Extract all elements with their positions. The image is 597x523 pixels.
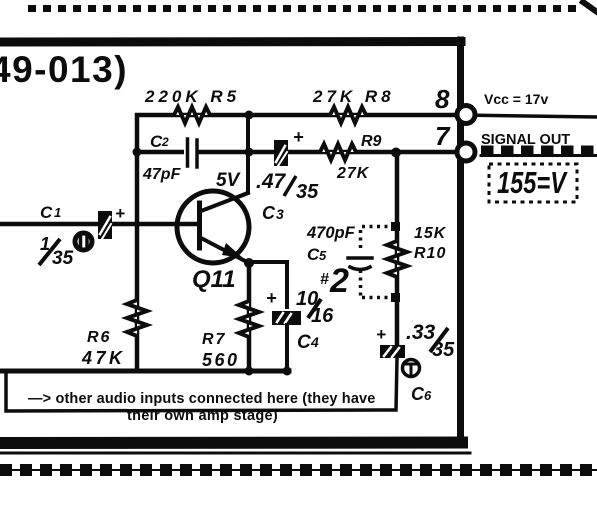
- node: rail junction C4: [283, 367, 292, 376]
- svg-text:5V: 5V: [216, 170, 241, 191]
- polarity circle symbol near C1: [75, 233, 92, 250]
- svg-text:27K: 27K: [336, 165, 370, 182]
- svg-text:R10: R10: [414, 245, 446, 262]
- wire: Vcc top row (collector supply) y=115: [137, 115, 454, 152]
- schematic box right edge: [457, 40, 464, 445]
- wire: base node vertical x=137: [135, 152, 140, 371]
- svg-text:#: #: [320, 271, 329, 288]
- node: emitter junction: [244, 258, 254, 268]
- top dashed border line: [28, 5, 583, 12]
- svg-text:220K R5: 220K R5: [144, 87, 240, 106]
- svg-text:.47: .47: [256, 170, 287, 193]
- resistor R5 (220K) zigzag: [168, 107, 216, 123]
- node: rail junction R7: [245, 367, 254, 376]
- transistor Q11 base bar: [197, 203, 202, 248]
- svg-text:47K: 47K: [81, 348, 126, 368]
- svg-text:155=V: 155=V: [497, 165, 568, 200]
- svg-text:2: 2: [161, 135, 169, 149]
- node: junction base-C2: [133, 148, 142, 157]
- svg-text:R6: R6: [87, 329, 111, 346]
- svg-text:16: 16: [311, 305, 334, 327]
- svg-text:C: C: [40, 203, 53, 222]
- svg-text:8: 8: [435, 84, 450, 114]
- signal out dashed line: [481, 146, 597, 155]
- schematic box top edge: [0, 37, 461, 47]
- svg-text:C: C: [297, 332, 311, 353]
- capacitor C5 (470pF) dotted optional: [348, 227, 390, 298]
- polarity circle symbol near C6: [403, 360, 420, 377]
- svg-text:47pF: 47pF: [142, 166, 182, 183]
- svg-text:Q11: Q11: [192, 266, 236, 293]
- wire: bottom emitter rail: [0, 369, 289, 374]
- pin 7 circle (signal out): [457, 143, 475, 161]
- svg-text:+: +: [376, 325, 386, 344]
- resistor R8 (27K) zigzag: [324, 107, 372, 123]
- svg-text:5: 5: [319, 248, 327, 263]
- svg-text:35: 35: [52, 248, 74, 269]
- svg-text:+: +: [266, 288, 277, 308]
- svg-text:SIGNAL OUT: SIGNAL OUT: [481, 132, 570, 148]
- node: junction C5 top: [391, 222, 400, 231]
- resistor R7 (560) zigzag: [239, 297, 259, 341]
- svg-text:+: +: [115, 204, 125, 223]
- svg-text:C: C: [262, 203, 276, 223]
- svg-text:35: 35: [296, 181, 319, 203]
- svg-text:15K: 15K: [414, 225, 447, 242]
- schematic box bottom thin underline: [0, 452, 470, 455]
- node: junction collector top: [245, 111, 254, 120]
- wire: emitter down to R7: [247, 263, 252, 371]
- svg-text:27K R8: 27K R8: [312, 87, 395, 106]
- wire: C2/C3/R9 row y=152: [137, 150, 454, 155]
- capacitor C1 (1/35) hatched electrolytic: [98, 211, 112, 239]
- node: junction R9-R10: [391, 148, 401, 158]
- svg-text:6: 6: [424, 388, 432, 403]
- svg-text:1: 1: [54, 205, 61, 220]
- svg-text:3: 3: [276, 206, 284, 222]
- svg-text:560: 560: [202, 350, 240, 370]
- svg-text:their own amp stage): their own amp stage): [127, 408, 278, 424]
- pin 8 circle (Vcc): [457, 106, 475, 124]
- svg-text:49-013): 49-013): [0, 49, 128, 90]
- transistor Q11 circle: [177, 191, 249, 263]
- 155mV dotted box: [489, 164, 577, 202]
- wire: C6 down and caption box: [6, 358, 397, 411]
- svg-text:—> other audio inputs connecte: —> other audio inputs connected here (th…: [28, 391, 375, 407]
- svg-text:+: +: [293, 127, 304, 147]
- svg-text:35: 35: [432, 339, 455, 361]
- capacitor C6 (.33/35) hatched electrolytic: [380, 345, 405, 358]
- wire: R10 branch vertical: [395, 152, 400, 345]
- svg-text:7: 7: [435, 121, 451, 151]
- svg-text:Vcc = 17v: Vcc = 17v: [484, 91, 548, 107]
- bottom dashed border line: [0, 464, 597, 476]
- resistor R6 (47K) zigzag: [127, 296, 147, 340]
- wire: base input y=224: [0, 222, 199, 227]
- svg-text:R9: R9: [361, 133, 382, 150]
- resistor R10 (15K) zigzag: [387, 237, 407, 281]
- svg-text:C: C: [411, 384, 425, 404]
- wire: emitter branch to C4: [249, 262, 287, 307]
- resistor R9 (27K) zigzag: [315, 144, 361, 160]
- capacitor C2 plates: [184, 138, 197, 168]
- pin 8 wire to edge: [460, 115, 597, 117]
- node: junction C5 bottom: [391, 293, 400, 302]
- svg-text:R7: R7: [202, 331, 226, 348]
- wire: collector vertical into Q11: [202, 115, 248, 211]
- transistor Q11 collector line inside: [201, 193, 248, 211]
- svg-text:2: 2: [329, 262, 349, 300]
- capacitor C3 (.47/35) hatched electrolytic: [274, 140, 288, 166]
- top-right corner curve mark: [583, 2, 597, 12]
- schematic box bottom edge: [0, 437, 462, 450]
- transistor Q11 emitter line with arrow: [201, 238, 247, 262]
- capacitor C4 (10/16) hatched electrolytic: [272, 311, 301, 325]
- node: junction collector-C2-C3: [245, 148, 254, 157]
- svg-text:470pF: 470pF: [306, 224, 356, 242]
- wire: C4 down to rail: [285, 325, 289, 371]
- svg-text:4: 4: [310, 334, 319, 350]
